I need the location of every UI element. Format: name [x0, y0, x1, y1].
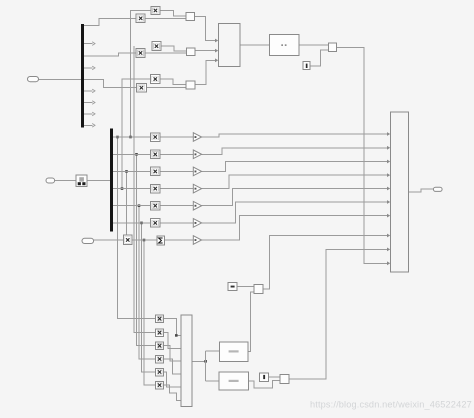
svg-text:https://blog.csdn.net/weixin_4: https://blog.csdn.net/weixin_46522427: [310, 400, 472, 410]
